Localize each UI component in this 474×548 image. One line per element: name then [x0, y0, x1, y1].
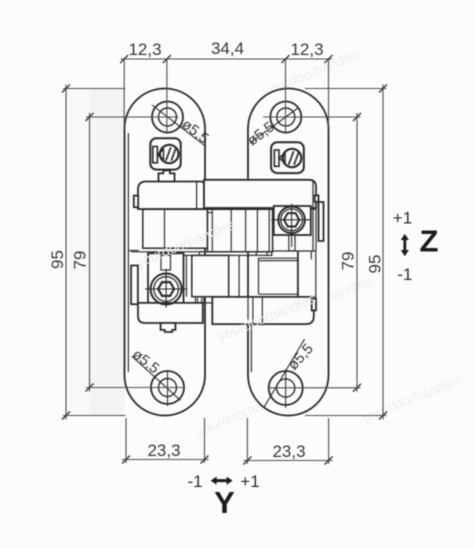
tab under lower-left block — [161, 323, 176, 332]
svg-text:79: 79 — [339, 252, 358, 271]
top-left hole — [152, 102, 206, 147]
left K logo — [150, 138, 180, 169]
M1 bottom extension — [208, 247, 214, 249]
top extension line right hole — [285, 59, 287, 134]
svg-text:12,3: 12,3 — [290, 40, 323, 59]
svg-text:34,4: 34,4 — [211, 39, 244, 58]
Z arrow — [401, 234, 409, 256]
upper screw — [271, 204, 311, 247]
Y arrow — [211, 477, 233, 485]
band inner verticals — [211, 209, 213, 252]
left 95 top extension — [63, 88, 126, 90]
lower band box — [192, 255, 229, 296]
right row top line — [273, 250, 316, 252]
right-side small step — [315, 195, 319, 201]
svg-text:Y: Y — [214, 485, 235, 520]
svg-text:-1: -1 — [397, 265, 412, 284]
lower-right block E — [212, 297, 313, 324]
left ticks — [62, 85, 94, 420]
upper band box — [208, 209, 273, 252]
tab under left logo — [159, 171, 175, 182]
bottom-right 23,3 dim line — [244, 460, 333, 462]
svg-text:+1: +1 — [393, 209, 412, 228]
block B inner right line — [312, 180, 314, 208]
left 95 dim line — [65, 85, 67, 420]
top extension line left plate edge — [123, 59, 125, 129]
bottom-left extensions — [125, 418, 127, 463]
lower screw block S1 — [148, 253, 184, 303]
right 95 top extension — [305, 88, 387, 90]
plate edge lines over block E — [247, 297, 249, 324]
upper-left block A — [138, 182, 204, 210]
left 79 dim line — [89, 113, 91, 392]
right plate inner edge line — [250, 300, 252, 372]
top dimension line — [121, 58, 333, 60]
short line at left plate edge — [128, 250, 138, 252]
step under upper screw — [289, 235, 295, 251]
svg-text:95: 95 — [48, 250, 67, 269]
band connector line — [208, 212, 213, 214]
left plate inner edge line — [127, 133, 129, 372]
top dim ticks — [120, 55, 332, 63]
right 95 bottom extension — [305, 415, 387, 417]
top extension line left hole — [166, 59, 168, 134]
left 79 top extension — [86, 116, 178, 118]
svg-text:12,3: 12,3 — [128, 40, 161, 59]
upper screw block S2 — [274, 206, 311, 235]
lower band vertical — [238, 255, 240, 296]
small step rect left — [199, 252, 205, 256]
svg-text:95: 95 — [366, 255, 385, 274]
watermark texts — [57, 45, 474, 497]
M1 inner vertical — [164, 209, 166, 248]
S1 inner line — [185, 255, 187, 296]
bottom-right hole — [264, 339, 305, 408]
band bottom left extension — [131, 251, 208, 253]
bottom-left 23,3 dim line — [122, 459, 209, 461]
svg-text:23,3: 23,3 — [272, 442, 305, 461]
block D top extension — [203, 302, 213, 304]
bottom-left hole — [132, 356, 184, 406]
right 95 dim line — [382, 85, 384, 420]
right ticks — [353, 85, 387, 420]
left plate — [125, 89, 206, 416]
right step horizontals — [258, 257, 298, 259]
svg-text:+1: +1 — [240, 472, 259, 491]
svg-text:-1: -1 — [187, 472, 202, 491]
top-right hole — [250, 102, 301, 144]
right column verticals — [297, 251, 299, 310]
stem above lower screw — [161, 255, 171, 270]
svg-text:23,3: 23,3 — [147, 441, 180, 460]
bottom-right extensions — [246, 418, 248, 464]
lower-left block D — [138, 303, 203, 323]
right-side narrow bar — [319, 202, 324, 241]
left margin wash — [66, 89, 90, 415]
mid block M1 — [143, 209, 208, 248]
column right of screw block — [312, 208, 314, 251]
upper band top line — [138, 208, 316, 210]
small rect row verticals — [255, 252, 257, 256]
lower screw — [145, 269, 187, 308]
lower row line — [184, 254, 273, 256]
right 79 dim line — [356, 113, 358, 392]
small steps left of block E — [195, 297, 203, 303]
left 79 bottom extension — [86, 387, 185, 389]
right 79 top extension — [263, 116, 361, 118]
upper-right block B — [204, 180, 316, 208]
right plate — [248, 89, 329, 416]
block A side line — [196, 182, 198, 210]
left narrow bar — [131, 266, 138, 305]
top extension line right plate edge — [328, 59, 330, 129]
watermark overlay on mechanism — [134, 198, 318, 362]
right 79 bottom extension — [268, 387, 361, 389]
step on block A left edge — [134, 196, 138, 208]
svg-text:Z: Z — [420, 224, 439, 259]
right K logo — [271, 142, 304, 173]
svg-text:79: 79 — [71, 251, 90, 270]
bar right of block E — [312, 299, 316, 311]
left 95 bottom extension — [63, 415, 126, 417]
